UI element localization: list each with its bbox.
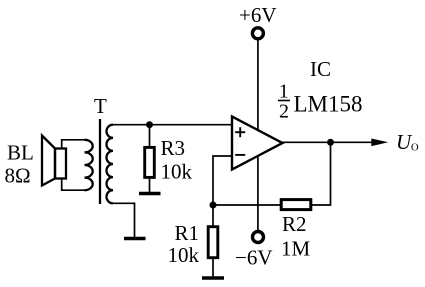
wire junction to R1 — [212, 205, 214, 227]
speaker BL — [42, 136, 66, 186]
svg-text:BL: BL — [7, 141, 34, 165]
node output junction — [327, 139, 334, 146]
node junction R1 feedback — [210, 202, 217, 209]
svg-text:LM158: LM158 — [294, 92, 363, 117]
svg-text:−6V: −6V — [235, 246, 273, 270]
wire op-amp to -6V — [257, 156, 259, 231]
wire secondary top to op-amp plus input — [113, 124, 232, 126]
op-amp plus symbol — [235, 127, 245, 137]
svg-text:1: 1 — [279, 81, 289, 103]
node junction R3 — [146, 121, 153, 128]
op-amp U1 triangle — [232, 117, 283, 170]
-6V terminal — [253, 232, 264, 243]
svg-text:R1: R1 — [175, 221, 200, 245]
label fraction 1/2 — [278, 81, 290, 123]
wire output — [283, 141, 374, 143]
svg-text:O: O — [411, 143, 419, 154]
wire junction to R3 — [149, 125, 151, 148]
svg-text:IC: IC — [310, 57, 331, 81]
ground transformer — [124, 237, 146, 241]
svg-text:1M: 1M — [281, 237, 311, 261]
+6V terminal — [252, 28, 263, 39]
wire feedback left segment — [213, 204, 281, 206]
resistor R2 — [281, 200, 311, 210]
ground R3 — [139, 192, 161, 196]
wire speaker bottom to primary — [62, 179, 85, 191]
op-amp minus symbol — [235, 154, 245, 156]
svg-text:+6V: +6V — [239, 3, 277, 27]
wire minus input — [213, 156, 232, 205]
svg-text:R3: R3 — [161, 136, 186, 160]
output arrowhead — [371, 139, 388, 147]
wire R3 to ground — [149, 177, 151, 192]
wire feedback right segment — [312, 142, 331, 205]
resistor R3 — [145, 147, 155, 177]
svg-text:10k: 10k — [168, 243, 200, 267]
svg-text:T: T — [94, 94, 107, 118]
svg-text:2: 2 — [279, 101, 289, 123]
transformer core — [99, 119, 101, 204]
ground R1 — [202, 276, 224, 280]
wire speaker top to primary — [62, 140, 85, 149]
wire R1 to ground — [212, 258, 214, 277]
resistor R1 — [208, 227, 218, 258]
transformer secondary coil — [107, 125, 114, 204]
wire secondary bottom to ground — [113, 203, 135, 237]
wire +6V to op-amp — [257, 40, 259, 130]
svg-text:R2: R2 — [282, 212, 307, 236]
transformer primary coil — [85, 140, 93, 190]
svg-text:10k: 10k — [161, 160, 193, 184]
svg-text:8Ω: 8Ω — [5, 164, 31, 188]
